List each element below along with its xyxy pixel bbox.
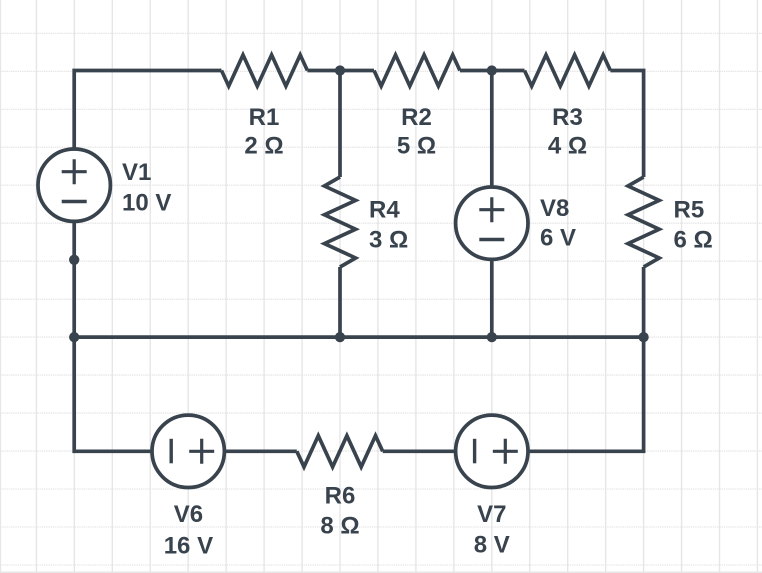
resistor R4 (324, 177, 355, 267)
resistor R4 branch wire from node A (338, 71, 342, 178)
voltage source V7 circle (456, 415, 528, 487)
svg-text:R2: R2 (401, 104, 432, 131)
svg-text:8 V: 8 V (474, 532, 510, 559)
wire R3 to right corner down to R5 (610, 71, 643, 178)
svg-text:V1: V1 (122, 159, 151, 186)
resistor R6 (297, 436, 383, 467)
voltage source V8 circle (456, 187, 528, 259)
node on left wire below V1 (69, 255, 79, 265)
svg-text:V8: V8 (540, 195, 569, 222)
V7 minus bar (left) (473, 439, 476, 464)
wire R2 to node B (460, 69, 525, 73)
wire V1 bottom to bus and down to V6 (74, 221, 152, 451)
junction R5 / bus (638, 332, 648, 342)
svg-text:V6: V6 (174, 501, 203, 528)
svg-text:2 Ω: 2 Ω (244, 133, 283, 160)
svg-text:16 V: 16 V (164, 533, 213, 560)
V1 plus sign (62, 159, 87, 184)
bus wire (middle horizontal) (74, 335, 643, 339)
wire R5 bottom through bus node down to V7 corner (528, 267, 644, 451)
svg-text:R6: R6 (325, 483, 356, 510)
voltage source V1 circle (38, 149, 110, 221)
bottom edge strip (0, 572, 762, 573)
junction V8 / bus (487, 332, 497, 342)
svg-text:8 Ω: 8 Ω (320, 512, 359, 539)
wire V6 to R6 (224, 449, 296, 453)
svg-text:V7: V7 (477, 501, 506, 528)
resistor R3 (525, 55, 611, 86)
wire node B down to V8 (490, 71, 494, 188)
svg-text:4 Ω: 4 Ω (548, 133, 587, 160)
V1 minus sign (62, 200, 87, 203)
resistor R2 (374, 55, 460, 86)
svg-text:3 Ω: 3 Ω (369, 226, 408, 253)
resistor R1 (222, 55, 308, 86)
V6 plus sign (right) (189, 439, 214, 464)
wire R4 to bus (338, 267, 342, 337)
svg-text:10 V: 10 V (122, 190, 171, 217)
svg-text:5 Ω: 5 Ω (397, 133, 436, 160)
junction left wire / bus (69, 332, 79, 342)
wire top-left: V1 top to R1 (74, 71, 221, 150)
V8 minus sign (479, 238, 504, 241)
svg-text:R3: R3 (552, 104, 583, 131)
V7 plus sign (right) (493, 439, 518, 464)
svg-text:R5: R5 (674, 197, 705, 224)
wire R6 to V7 (383, 449, 456, 453)
svg-text:6 Ω: 6 Ω (674, 226, 713, 253)
voltage source V6 circle (152, 415, 224, 487)
wire V8 bottom to bus (490, 259, 494, 337)
V6 minus bar (left) (169, 439, 172, 464)
wire R1 to node A (307, 69, 374, 73)
junction node A (R1/R2/R4) (335, 65, 345, 75)
svg-text:R4: R4 (369, 197, 400, 224)
svg-text:6 V: 6 V (540, 225, 576, 252)
junction R4 / bus (335, 332, 345, 342)
V8 plus sign (479, 197, 504, 222)
junction node B (R2/R3/V8) (487, 65, 497, 75)
resistor R5 (628, 177, 659, 267)
svg-text:R1: R1 (249, 104, 280, 131)
